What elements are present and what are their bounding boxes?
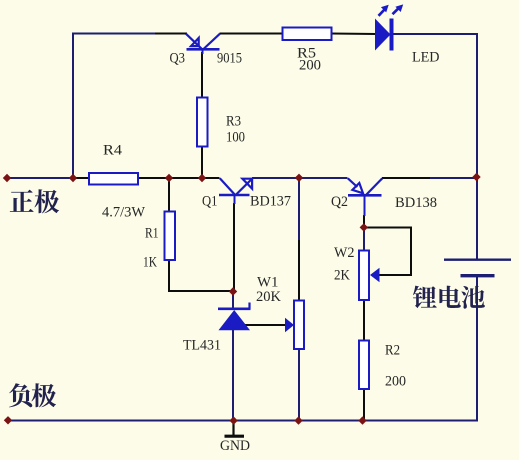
node R4/R1 junction bbox=[165, 174, 173, 182]
LED light arrow 2 bbox=[393, 7, 400, 14]
W2 wiper arrow bbox=[370, 268, 380, 282]
resistor R5 200 bbox=[283, 28, 332, 41]
svg-text:R2: R2 bbox=[385, 343, 400, 359]
svg-text:R3: R3 bbox=[226, 114, 241, 130]
LED cathode bar bbox=[390, 19, 394, 51]
svg-text:2K: 2K bbox=[334, 268, 350, 284]
svg-text:9015: 9015 bbox=[217, 51, 242, 67]
wire LED to right corner bbox=[392, 33, 478, 35]
transistor Q3 9015 (PNP) bbox=[186, 34, 220, 50]
wire top horizontal black to Q3 bbox=[155, 33, 187, 35]
wire Q3 to R5 bbox=[220, 33, 284, 35]
node GND junction bbox=[229, 416, 237, 424]
wire top-left horizontal (navy part) bbox=[72, 33, 155, 35]
W1 wiper arrow bbox=[285, 318, 294, 332]
battery positive plate bbox=[444, 259, 511, 261]
svg-text:TL431: TL431 bbox=[183, 338, 221, 354]
svg-text:200: 200 bbox=[299, 58, 321, 74]
wire positive rail left (navy) bbox=[6, 177, 73, 179]
wire Q1 base down bbox=[233, 203, 235, 291]
ground stub bbox=[232, 421, 234, 435]
wire right vertical upper bbox=[476, 33, 478, 259]
wire W2 to R2 bbox=[363, 299, 365, 341]
wire R2 to bottom rail bbox=[363, 388, 365, 421]
svg-text:4.7/3W: 4.7/3W bbox=[102, 205, 146, 221]
node W1 bottom junction bbox=[294, 416, 302, 424]
battery negative plate bbox=[461, 274, 495, 277]
svg-text:200: 200 bbox=[385, 374, 406, 390]
wire node to TL431 cathode bbox=[232, 291, 234, 309]
TL431 reference tick bbox=[248, 303, 250, 309]
wire node to W2 bbox=[363, 228, 365, 251]
TL431 cathode bar bbox=[218, 307, 251, 310]
wire R4 node down to R1 bbox=[168, 178, 170, 212]
wire positive rail to Q1 bbox=[73, 177, 220, 179]
wire R5 to LED bbox=[331, 33, 376, 36]
svg-text:BD137: BD137 bbox=[250, 194, 291, 210]
svg-text:Q1: Q1 bbox=[202, 194, 218, 210]
wire W1 top (navy part) bbox=[298, 178, 300, 240]
transistor Q2 BD138 (PNP) bbox=[348, 178, 383, 195]
wire Q1 to Q2 bbox=[252, 177, 348, 179]
node W1 top junction bbox=[295, 174, 303, 182]
wire Q3 collector down to R3 bbox=[201, 52, 203, 99]
resistor R3 100 bbox=[197, 98, 208, 147]
label positive pole (Chinese) bbox=[10, 190, 34, 212]
transistor Q1 BD137 (NPN) bbox=[219, 178, 252, 195]
svg-text:R1: R1 bbox=[145, 226, 159, 242]
resistor R4 4.7/3W bbox=[89, 173, 138, 185]
LED diode triangle bbox=[375, 19, 391, 51]
label lithium battery (Chinese) bbox=[413, 286, 437, 309]
potentiometer W2 2K body bbox=[359, 251, 369, 301]
node left vertical junction bbox=[69, 174, 77, 182]
svg-text:1K: 1K bbox=[143, 255, 157, 271]
wire right vertical lower bbox=[476, 277, 478, 422]
potentiometer W1 20K body bbox=[294, 301, 304, 350]
svg-text:GND: GND bbox=[220, 438, 250, 454]
svg-text:Q2: Q2 bbox=[331, 194, 348, 210]
svg-text:R4: R4 bbox=[103, 143, 123, 159]
resistor R1 1K bbox=[165, 212, 176, 261]
svg-text:Q3: Q3 bbox=[170, 51, 186, 67]
LED light arrow 1 bbox=[379, 9, 386, 16]
svg-text:W2: W2 bbox=[334, 245, 355, 261]
resistor R2 200 bbox=[359, 341, 369, 390]
wire R1 bottom down bbox=[168, 259, 170, 291]
node TL431/R1/Q1 junction bbox=[229, 287, 237, 295]
svg-text:LED: LED bbox=[412, 50, 440, 66]
wire Q2 to battery node (black part) bbox=[382, 177, 430, 179]
svg-text:20K: 20K bbox=[256, 289, 281, 305]
label negative pole (Chinese) bbox=[9, 383, 32, 407]
node positive rail left end bbox=[3, 174, 11, 182]
wire W2 wiper loop bbox=[364, 228, 411, 276]
wire TL431 ref to W1 wiper bbox=[240, 324, 287, 326]
node Q2/W2 junction bbox=[360, 223, 368, 231]
wire W1 top (black part) bbox=[298, 240, 300, 301]
wire R1 to TL431 node bbox=[168, 290, 233, 292]
wire R3 to positive rail bbox=[201, 146, 203, 178]
wire TL431 anode to bottom rail bbox=[232, 330, 234, 421]
svg-text:BD138: BD138 bbox=[395, 195, 437, 211]
svg-text:100: 100 bbox=[226, 130, 245, 146]
node battery top junction bbox=[472, 173, 480, 181]
node R2 bottom junction bbox=[358, 416, 366, 424]
wire bottom rail bbox=[6, 420, 478, 422]
TL431 triangle bbox=[219, 310, 251, 330]
ground bar bbox=[225, 435, 245, 438]
wire to battery node (navy part) bbox=[430, 177, 477, 179]
wire Q2 base down black bbox=[363, 215, 365, 228]
node negative rail left end bbox=[4, 416, 12, 424]
node R3 junction bbox=[198, 174, 206, 182]
wire left vertical bbox=[72, 33, 74, 179]
wire W1 bottom bbox=[298, 348, 300, 421]
